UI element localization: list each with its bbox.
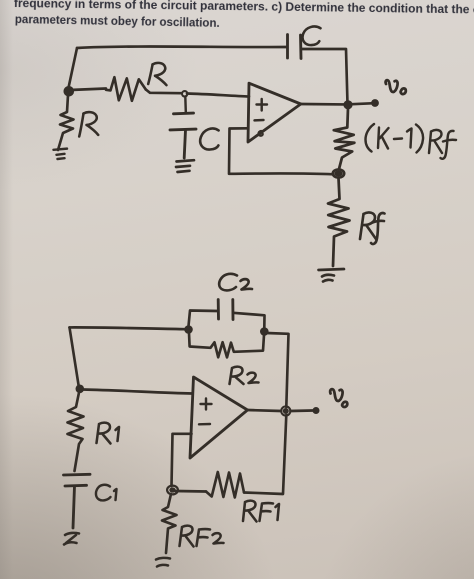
node E (260, 327, 269, 336)
ground (below C1) (64, 533, 79, 545)
wire capacitor right plate to output column (301, 49, 348, 104)
resistor R (shunt) from node A down (58, 95, 74, 150)
wire C2 left plate to node D (189, 311, 219, 327)
node G (169, 487, 175, 492)
resistor RF1 (206, 472, 244, 498)
resistor R2 with arms from node D and node E (189, 333, 264, 357)
value label (K-1)Rf (366, 124, 457, 159)
output terminal v0 (circuit 2) (313, 407, 320, 414)
value label R2 (230, 367, 259, 384)
wire node H to output terminal (291, 409, 313, 412)
value label R (shunt) (79, 112, 98, 136)
resistor (K-1)Rf (334, 109, 355, 170)
wire left vertical down to node A (68, 48, 77, 90)
inverting input wire: stub, down, to node G (172, 434, 192, 486)
capacitor C2 (218, 300, 233, 320)
wire C2 right plate to node E (233, 313, 265, 328)
op-amp U1 (248, 83, 301, 142)
resistor RF2 (162, 494, 177, 553)
output terminal v0 (371, 99, 379, 107)
op-amp U2 (190, 377, 248, 458)
wire top feedback from left corner to capacitor C left plate (77, 46, 287, 48)
wire node B to output terminal (352, 102, 372, 106)
ground (below shunt C) (176, 160, 194, 172)
value label C2 (219, 274, 252, 291)
node H (output junction, ringed dot) (281, 406, 290, 415)
label v0 (386, 80, 406, 94)
value label R1 (97, 423, 120, 444)
value label Rf (360, 212, 385, 244)
wire node E to output column (267, 333, 289, 407)
node B (output junction) (343, 100, 352, 109)
ground (below shunt R) (54, 149, 68, 159)
feedback wire node C to inverting input (229, 128, 333, 174)
wire node F to op-amp + input (83, 390, 192, 394)
resistor R (series, horizontal) (106, 77, 146, 101)
resistor Rf (328, 178, 350, 266)
wire node A to resistor R (70, 89, 106, 91)
capacitor C (top feedback) (288, 35, 302, 59)
value label C1 (96, 485, 117, 501)
wire node D long run to left column corner (70, 327, 187, 329)
ground (below Rf) (319, 269, 345, 282)
label v0 (circuit 2) (330, 389, 347, 407)
wire resistor R to junction (146, 90, 181, 94)
value label RF1 (243, 501, 279, 522)
wire junction to op-amp + input (187, 94, 249, 97)
node A (input junction) (64, 86, 75, 97)
node F (76, 385, 85, 394)
node D (184, 325, 193, 334)
wire junction stub down to capacitor C (184, 97, 187, 113)
resistor R1 (68, 393, 84, 472)
value label R (series) (148, 63, 166, 85)
wire op-amp output to node B (301, 103, 344, 106)
wire left column down to node F (70, 327, 80, 388)
node C (feedback junction, ringed dot) (333, 169, 344, 177)
wire RF1 to output column up to node H (244, 415, 286, 494)
wire op-amp U2 output to node H (248, 410, 282, 411)
value label C (303, 27, 321, 46)
capacitor C (shunt) (170, 113, 196, 158)
capacitor C1 (64, 474, 91, 528)
value label C (shunt) (200, 129, 218, 150)
value label RF2 (180, 526, 224, 547)
junction (small circle) (182, 91, 187, 96)
wire node G to resistor RF1 (176, 490, 207, 493)
ground (below RF2) (156, 558, 170, 567)
